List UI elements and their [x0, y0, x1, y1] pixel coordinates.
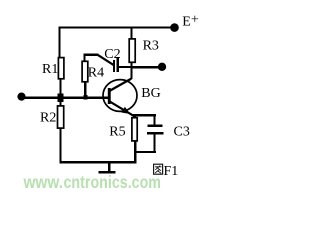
svg-text:E+: E+ — [182, 13, 199, 30]
transistor emitter diagonal — [110, 102, 134, 117]
svg-text:R2: R2 — [40, 111, 56, 126]
capacitor C2 right plate — [117, 58, 119, 72]
svg-text:F1: F1 — [164, 164, 179, 179]
caption 图 glyph box — [154, 164, 163, 174]
wire C2 left diagonal — [98, 55, 114, 65]
wire R5 top stub — [134, 115, 136, 118]
node output terminal dot — [158, 63, 166, 71]
svg-text:R3: R3 — [143, 39, 159, 54]
svg-text:BG: BG — [141, 86, 160, 101]
svg-text:C2: C2 — [104, 47, 120, 62]
wire emitter junction to C3 top — [133, 114, 156, 116]
wire R5 bottom to bottom rail — [134, 141, 136, 164]
wire junction to R2 top — [59, 99, 61, 106]
transistor collector diagonal — [110, 79, 132, 91]
resistor R3 — [129, 39, 135, 62]
svg-text:cntronics.com: cntronics.com — [64, 172, 162, 192]
ground stem — [108, 164, 110, 172]
wire bottom rail — [59, 161, 136, 164]
wire output horizontal to output node — [130, 66, 162, 68]
transistor BG circle — [103, 80, 137, 112]
node junction R4/base wire — [83, 95, 87, 100]
resistor R4 — [82, 61, 88, 82]
node E+ supply dot — [170, 23, 179, 32]
capacitor C3 top plate — [147, 125, 162, 127]
wire C3 top stem — [154, 116, 156, 125]
capacitor C2 left plate — [113, 60, 115, 72]
wire C3 bottom stem — [154, 135, 156, 152]
wire left vertical from top rail to R1 — [58, 26, 60, 57]
wire R4 bottom stub to base wire — [84, 82, 86, 97]
wire R1 bottom to base junction — [59, 79, 61, 96]
svg-text:R1: R1 — [42, 62, 58, 77]
wire R3 top stub — [131, 29, 133, 39]
node junction dot at R1/R2/base — [58, 94, 64, 102]
ground bar — [99, 171, 116, 173]
wire R2 bottom down to bottom rail — [59, 128, 61, 164]
wire R3 bottom / collector vertical — [130, 62, 132, 79]
wire base horizontal (input to base bar) — [21, 97, 109, 100]
resistor R2 — [58, 106, 64, 128]
node input terminal dot — [17, 93, 25, 101]
transistor emitter arrow — [121, 107, 130, 114]
resistor R1 — [58, 58, 64, 79]
svg-text:www.: www. — [23, 172, 63, 192]
wire bottom-right horizontal (R5/C3 bottom) — [134, 151, 156, 153]
svg-text:C3: C3 — [174, 125, 190, 140]
resistor R5 — [132, 118, 137, 141]
svg-text:R4: R4 — [88, 66, 104, 81]
transistor base bar — [108, 88, 111, 104]
svg-text:R5: R5 — [109, 125, 125, 140]
wire R4 top horizontal toward C2 — [83, 54, 98, 56]
wire R4 top stub — [83, 54, 85, 62]
capacitor C3 bottom plate — [147, 132, 164, 135]
wire top rail — [58, 26, 175, 28]
wire C2 right plate to collector node — [119, 66, 132, 68]
